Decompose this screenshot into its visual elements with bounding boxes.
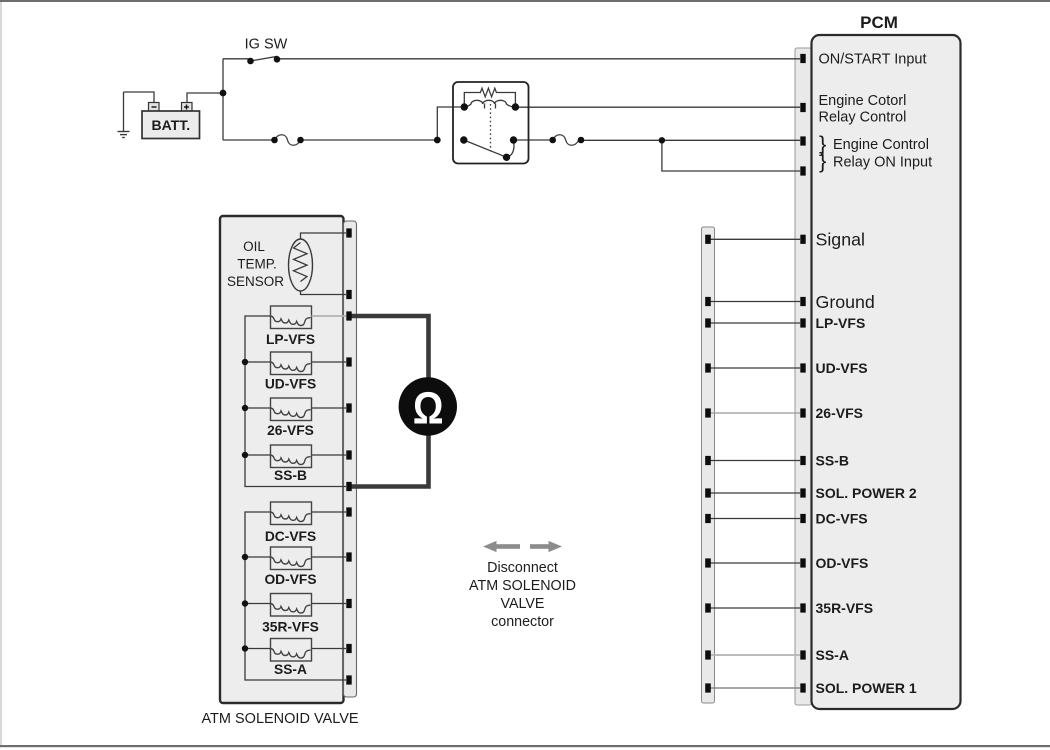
svg-text:OD-VFS: OD-VFS	[264, 572, 316, 587]
svg-text:SS-A: SS-A	[816, 647, 849, 663]
svg-text:SOL. POWER 1: SOL. POWER 1	[816, 680, 917, 696]
svg-text:UD-VFS: UD-VFS	[265, 376, 316, 391]
svg-text:DC-VFS: DC-VFS	[265, 529, 316, 544]
svg-text:DC-VFS: DC-VFS	[816, 511, 868, 527]
svg-text:ATM SOLENOID: ATM SOLENOID	[469, 578, 576, 594]
svg-text:26-VFS: 26-VFS	[267, 423, 314, 438]
svg-text:Ω: Ω	[413, 382, 444, 433]
svg-text:PCM: PCM	[860, 13, 898, 32]
svg-text:Signal: Signal	[816, 230, 865, 250]
svg-text:SENSOR: SENSOR	[227, 274, 284, 289]
svg-text:LP-VFS: LP-VFS	[816, 315, 866, 331]
svg-text:OIL: OIL	[243, 239, 265, 254]
svg-text:Engine Control: Engine Control	[833, 137, 929, 153]
svg-text:35R-VFS: 35R-VFS	[262, 619, 319, 634]
svg-text:Relay Control: Relay Control	[819, 110, 907, 126]
svg-text:IG SW: IG SW	[245, 37, 288, 53]
svg-text:OD-VFS: OD-VFS	[816, 555, 869, 571]
svg-text:ATM SOLENOID VALVE: ATM SOLENOID VALVE	[201, 711, 358, 727]
svg-text:SS-A: SS-A	[274, 662, 307, 677]
svg-text:TEMP.: TEMP.	[237, 256, 277, 271]
svg-text:SS-B: SS-B	[274, 468, 307, 483]
svg-text:Relay ON Input: Relay ON Input	[833, 155, 932, 171]
svg-text:VALVE: VALVE	[501, 596, 545, 612]
svg-text:Disconnect: Disconnect	[487, 560, 558, 576]
svg-text:LP-VFS: LP-VFS	[266, 332, 315, 347]
svg-text:connector: connector	[491, 614, 554, 630]
svg-text:}: }	[819, 148, 826, 173]
svg-text:SOL. POWER 2: SOL. POWER 2	[816, 485, 917, 501]
svg-text:Engine Cotorl: Engine Cotorl	[819, 93, 907, 109]
svg-text:BATT.: BATT.	[151, 117, 190, 133]
svg-text:SS-B: SS-B	[816, 453, 849, 469]
svg-text:26-VFS: 26-VFS	[816, 405, 863, 421]
svg-text:ON/START Input: ON/START Input	[819, 52, 927, 68]
svg-text:UD-VFS: UD-VFS	[816, 360, 868, 376]
svg-text:Ground: Ground	[816, 292, 875, 312]
svg-text:35R-VFS: 35R-VFS	[816, 600, 874, 616]
